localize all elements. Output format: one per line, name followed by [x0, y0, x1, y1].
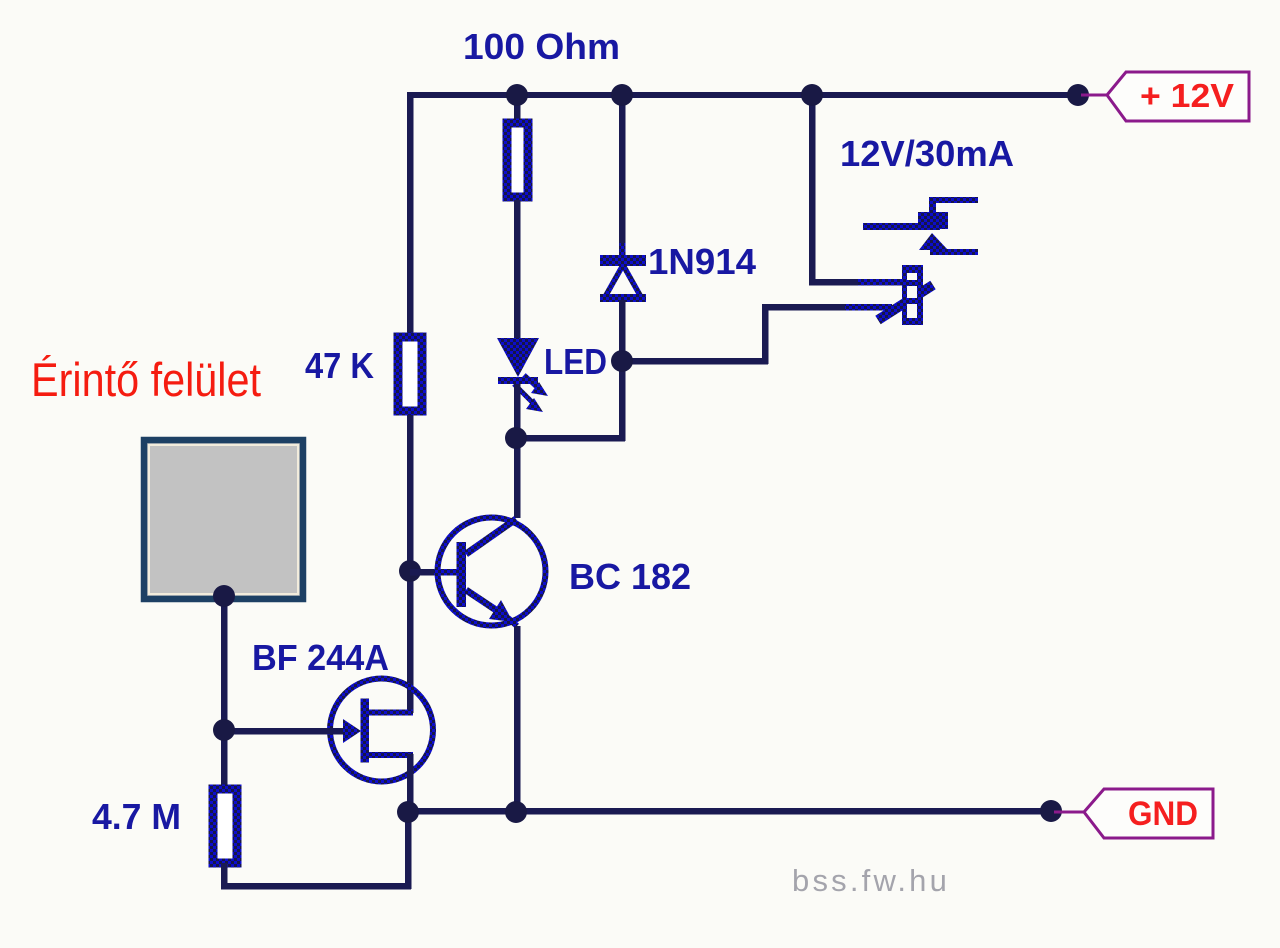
- label: 1N914: [648, 241, 756, 282]
- label: BF 244A: [252, 637, 389, 678]
- node: base junction: [399, 560, 421, 582]
- wire: node below LED down to BC182 collector: [514, 438, 521, 518]
- svg-text:Érintő felület: Érintő felület: [31, 353, 261, 406]
- node: +12V terminal: [1067, 84, 1089, 106]
- svg-text:LED: LED: [544, 341, 607, 382]
- transistor Q2 gate arrow: [343, 719, 361, 743]
- svg-text:1N914: 1N914: [648, 241, 756, 282]
- LED D2 light arrow 1: [524, 375, 548, 396]
- touch pad square: [144, 440, 303, 599]
- label: 12V/30mA: [840, 133, 1014, 174]
- wire: +12V top rail: [407, 92, 1081, 98]
- svg-text:12V/30mA: 12V/30mA: [840, 133, 1014, 174]
- wire: relay lower riser: [762, 304, 769, 364]
- diode D1 1N914 cathode bar: [600, 255, 646, 266]
- wire: vertical riser from that corner up to LED node: [619, 361, 626, 441]
- svg-text:47 K: 47 K: [305, 345, 374, 386]
- wire: 100 Ohm bottom down to LED: [514, 200, 521, 340]
- wire: collector branch rail to 100 Ohm resistor: [514, 92, 521, 121]
- svg-text:bss.fw.hu: bss.fw.hu: [792, 863, 950, 898]
- wire: left vertical from rail to 47K: [407, 92, 414, 335]
- resistor R3 4.7 M: [213, 789, 237, 863]
- label: 100 Ohm: [463, 26, 620, 67]
- LED D2 cathode bar: [498, 377, 538, 384]
- node: touch pad terminal: [213, 585, 235, 607]
- label: 47 K: [305, 345, 374, 386]
- transistor Q1 collector stroke: [466, 519, 516, 554]
- svg-text:BC 182: BC 182: [569, 556, 691, 597]
- svg-text:4.7 M: 4.7 M: [92, 796, 181, 837]
- wire: LED cathode down to node below: [514, 384, 521, 444]
- wire: 47K bottom through base node down to JFET drain: [407, 415, 414, 713]
- transistor Q2 channel bar: [361, 699, 370, 763]
- wire: bottom riser to GND node: [405, 812, 412, 889]
- wire: diode branch rail to 1N914: [619, 92, 626, 260]
- label: Érintő felület: [31, 353, 261, 406]
- node: source GND junction: [397, 801, 419, 823]
- wire: JFET source down to GND node: [407, 754, 414, 815]
- wire: GND rail: [408, 808, 1051, 815]
- wire: relay coil lower horizontal: [762, 304, 892, 311]
- wire: base stub: [410, 569, 457, 576]
- node: gate junction: [213, 719, 235, 741]
- wire: relay branch vertical from rail: [809, 92, 816, 285]
- watermark bss.fw.hu: [792, 863, 950, 898]
- transistor Q1 emitter stroke with arrow: [466, 590, 517, 626]
- svg-text:+ 12V: + 12V: [1140, 77, 1234, 114]
- node: rail junction at relay branch: [801, 84, 823, 106]
- relay K1 contact arm: [863, 223, 940, 230]
- transistor Q2 drain stroke: [363, 710, 413, 716]
- relay K1 contact arrow: [919, 233, 978, 255]
- wire: node below LED horizontal to diode branch: [514, 435, 625, 442]
- power flag +12V: [1081, 72, 1249, 121]
- svg-text:100 Ohm: 100 Ohm: [463, 26, 620, 67]
- wire: touch pad down to gate node and 4.7M: [221, 599, 228, 786]
- LED D2 light arrow 2: [514, 384, 543, 412]
- wire: LED node horizontal toward relay: [622, 358, 768, 365]
- wire: 4.7M bottom to bottom rail: [221, 863, 228, 889]
- resistor R2 47 K: [398, 337, 422, 411]
- resistor R1 100 Ohm: [507, 123, 528, 197]
- transistor Q1 BC182 circle: [438, 518, 546, 626]
- svg-text:GND: GND: [1128, 795, 1198, 833]
- relay K1 contact fixed terminal: [918, 197, 978, 229]
- transistor Q2 BF244A circle: [330, 679, 433, 782]
- node: below LED junction: [505, 427, 527, 449]
- transistor Q2 source stroke: [363, 752, 413, 758]
- label: 4.7 M: [92, 796, 181, 837]
- node: LED anode junction: [611, 350, 633, 372]
- transistor Q1 base bar: [457, 542, 467, 607]
- wire: relay coil upper horizontal: [809, 279, 905, 286]
- wire: emitter down to GND rail: [514, 626, 521, 812]
- relay K1 coil: [845, 265, 933, 325]
- node: rail junction at diode branch: [611, 84, 633, 106]
- transistor Q2 gate wire: [224, 728, 346, 735]
- ground flag GND: [1054, 789, 1213, 838]
- node: rail junction at collector branch: [506, 84, 528, 106]
- wire: bottom horizontal return: [221, 883, 411, 890]
- node: GND terminal: [1040, 800, 1062, 822]
- label: LED: [544, 341, 607, 382]
- svg-text:BF 244A: BF 244A: [252, 637, 389, 678]
- diode D1 1N914 triangle: [600, 243, 646, 316]
- LED D2 triangle: [497, 338, 539, 377]
- label: BC 182: [569, 556, 691, 597]
- node: emitter GND junction: [505, 801, 527, 823]
- wire: 1N914 anode down to LED node: [619, 300, 626, 361]
